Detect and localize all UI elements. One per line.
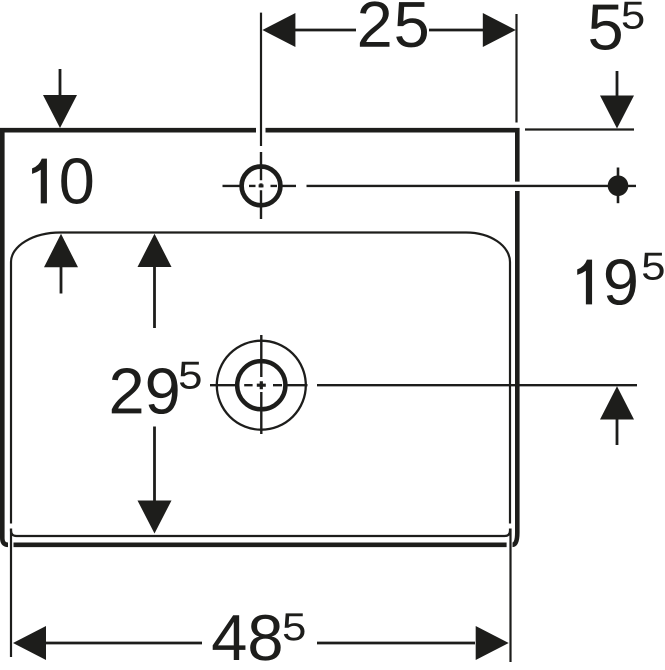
label 29.5: [112, 368, 178, 414]
faucet hole vertical center line: [260, 152, 262, 219]
label 10: [32, 158, 92, 204]
basin inner outline (rounded rectangle with breaks at extension lines): [11, 233, 510, 537]
dim 25: dimension line segments: [295, 29, 483, 32]
label 48.5: [213, 615, 281, 661]
dim 25 left arrowhead: [262, 13, 295, 47]
label 5.5 main: [590, 5, 621, 50]
washbasin outer rim bottom edge: [14, 542, 507, 547]
faucet hole center dash cross: [259, 183, 264, 187]
mounting hole dot: [608, 175, 629, 196]
dim 25: right extension line: [515, 14, 517, 123]
dim 5.5: down arrow tail: [616, 71, 619, 96]
washbasin outer rim left edge with bottom-left corner curve: [2, 128, 8, 545]
dim 10: down arrow tail: [59, 69, 62, 96]
dim 19.5: up arrow tail: [616, 420, 619, 446]
dim 25: left extension line (faucet center line above rim): [260, 13, 262, 146]
drain inner ring: [237, 361, 285, 409]
drain vertical center line: [260, 335, 262, 434]
label 19.5 superscript: [643, 253, 664, 280]
drain outer circle: [217, 341, 306, 430]
long horizontal line from drain center to right (19.5 reference): [317, 384, 637, 386]
dim 25 right arrowhead: [483, 13, 516, 47]
dim 5.5: rim top edge extension line (right side): [525, 128, 634, 130]
dim 29.5 up arrowhead: [138, 234, 172, 267]
washbasin outer rim top edge (left part): [0, 128, 256, 133]
dim 19.5 up arrowhead: [600, 386, 634, 419]
dim 5.5 down arrowhead: [600, 96, 634, 129]
dim 10 up arrowhead: [44, 234, 78, 267]
long horizontal line through faucet level and mounting dot: [307, 185, 637, 187]
dim 29.5 down arrowhead: [138, 501, 172, 534]
label 48.5 superscript: [284, 613, 305, 640]
dim 48.5: dimension line segments: [46, 642, 475, 645]
drain center cross: [257, 381, 266, 389]
label 19.5: [577, 259, 636, 305]
washbasin outer rim right edge lower segment with bottom-right corner curve: [513, 191, 518, 545]
dim 10 down arrowhead: [43, 95, 77, 128]
dim 48.5 right arrowhead: [476, 626, 509, 660]
faucet hole horizontal center line dashes: [223, 185, 297, 187]
dim 48.5: right extension line: [509, 529, 511, 663]
washbasin outer rim top edge (right part) and right edge upper segment: [266, 130, 518, 181]
dim 29.5: dimension line segments: [153, 267, 156, 501]
dim 48.5 left arrowhead: [13, 626, 46, 660]
dim 10: up arrow tail: [60, 267, 63, 294]
label 25: [360, 1, 427, 47]
drain horizontal center line dashes: [210, 384, 308, 386]
faucet hole circle: [242, 167, 281, 206]
mounting hole dot vertical cross line: [617, 168, 620, 204]
dim 48.5: left extension line: [10, 529, 12, 658]
label 5.5 superscript: [623, 2, 644, 29]
label 29.5 superscript: [180, 362, 201, 389]
